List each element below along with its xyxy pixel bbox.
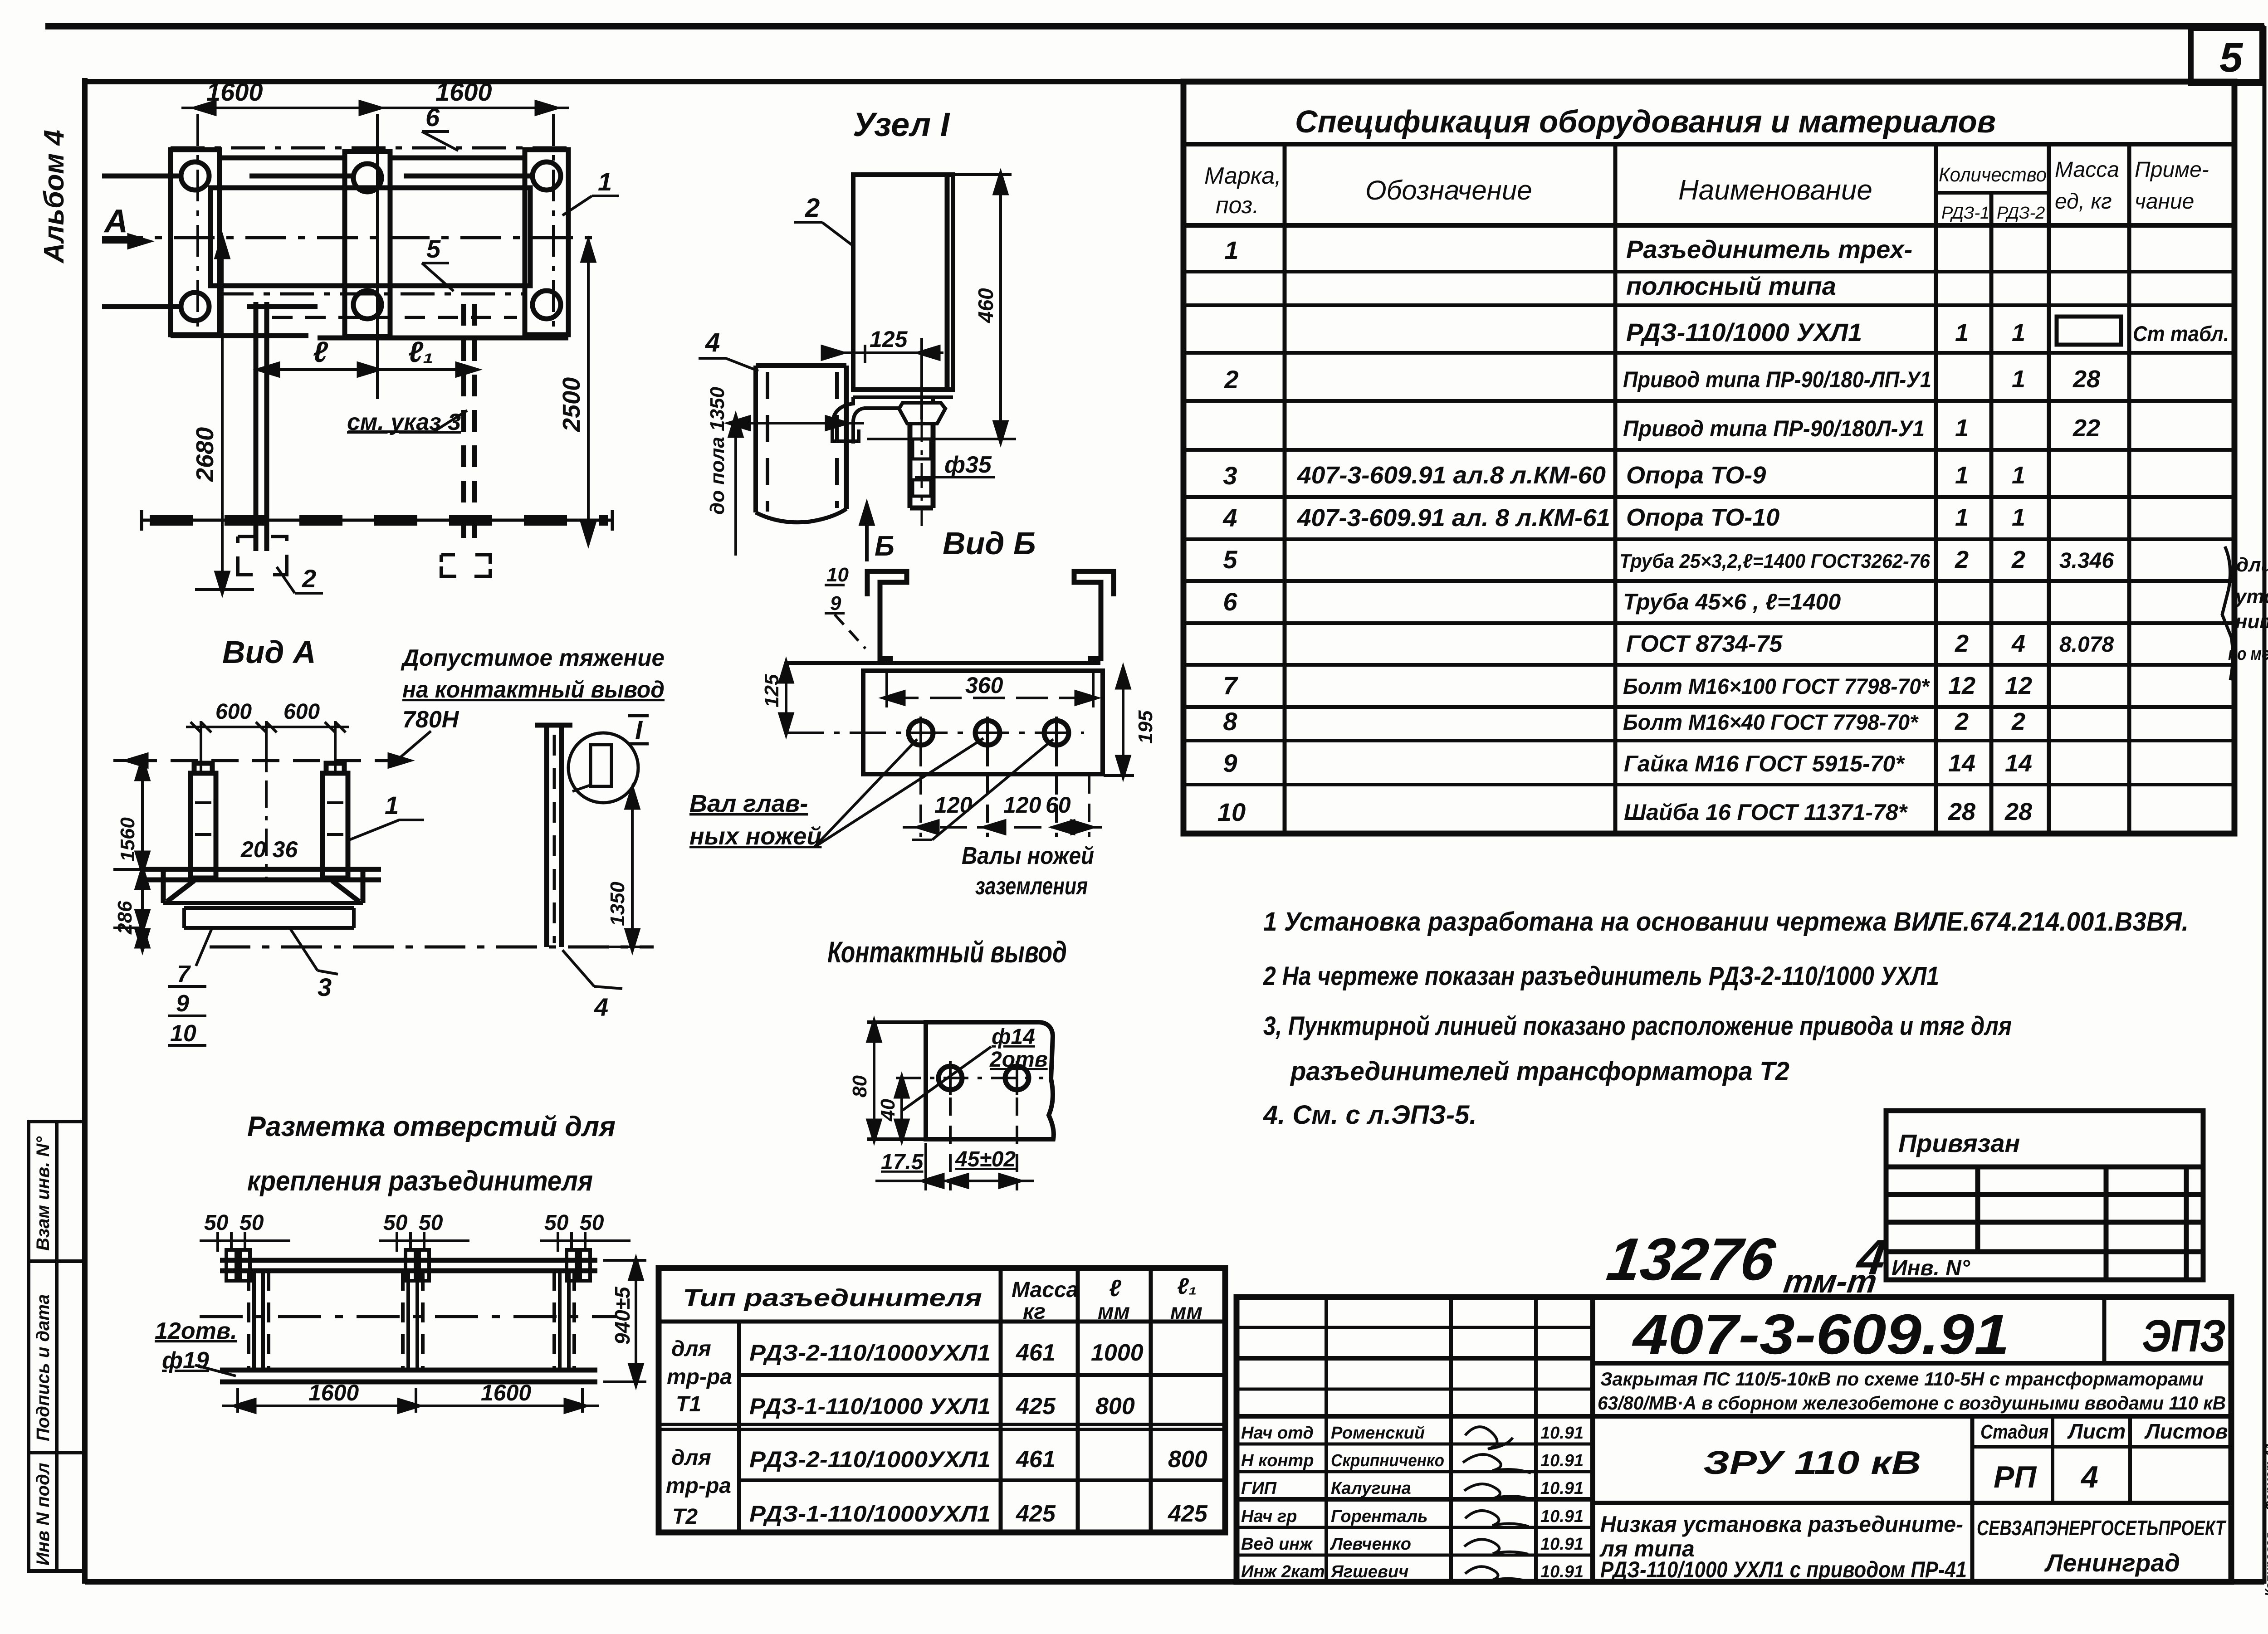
svg-text:Н контр: Н контр [1241, 1451, 1314, 1470]
svg-text:мм: мм [1098, 1300, 1130, 1324]
svg-text:Альбом 4: Альбом 4 [39, 130, 70, 264]
svg-text:Вид Б: Вид Б [943, 526, 1036, 561]
svg-text:780Н: 780Н [402, 707, 459, 733]
svg-text:ℓ: ℓ [313, 336, 328, 368]
svg-text:Горенталь: Горенталь [1331, 1507, 1428, 1526]
svg-text:20 36: 20 36 [240, 837, 298, 862]
svg-text:Труба 25×3,2,ℓ=1400 ГОСТ3262-7: Труба 25×3,2,ℓ=1400 ГОСТ3262-76 [1619, 550, 1930, 572]
svg-text:Наименование: Наименование [1678, 175, 1872, 206]
svg-text:940±5: 940±5 [611, 1286, 634, 1345]
svg-text:50: 50 [419, 1211, 443, 1235]
svg-text:28: 28 [1948, 798, 1975, 825]
svg-text:7: 7 [1223, 671, 1238, 700]
svg-text:120: 120 [934, 792, 973, 818]
svg-text:Опора ТО-10: Опора ТО-10 [1626, 504, 1779, 531]
svg-text:22: 22 [2072, 415, 2100, 442]
svg-text:7: 7 [177, 961, 191, 987]
svg-text:407-3-609.91 ал.8 л.КМ-60: 407-3-609.91 ал.8 л.КМ-60 [1297, 462, 1606, 489]
svg-text:1350: 1350 [606, 882, 629, 926]
svg-text:Шайба 16 ГОСТ 11371-78*: Шайба 16 ГОСТ 11371-78* [1624, 800, 1908, 825]
svg-text:А: А [103, 203, 128, 239]
svg-text:Масса: Масса [2055, 158, 2119, 182]
svg-text:Вед инж: Вед инж [1241, 1535, 1313, 1554]
svg-text:2: 2 [2011, 546, 2025, 573]
svg-text:заземления: заземления [975, 873, 1088, 900]
svg-text:ных ножей: ных ножей [689, 823, 821, 850]
svg-text:5: 5 [2219, 34, 2244, 81]
svg-text:ГИП: ГИП [1241, 1479, 1277, 1498]
svg-text:Приме-: Приме- [2135, 158, 2209, 182]
svg-text:для: для [671, 1446, 711, 1470]
svg-text:800: 800 [1168, 1446, 1207, 1473]
svg-text:8.078: 8.078 [2059, 633, 2114, 657]
svg-text:РДЗ-2-110/1000УХЛ1: РДЗ-2-110/1000УХЛ1 [749, 1447, 991, 1472]
svg-text:поз.: поз. [1216, 192, 1259, 219]
svg-text:800: 800 [1095, 1393, 1135, 1419]
svg-text:1 Установка разработана на осн: 1 Установка разработана на основании чер… [1263, 907, 2189, 937]
svg-text:2: 2 [302, 564, 316, 593]
svg-text:360: 360 [965, 673, 1003, 698]
svg-text:9: 9 [176, 990, 189, 1017]
svg-text:Привод типа ПР-90/180Л-У1: Привод типа ПР-90/180Л-У1 [1623, 416, 1925, 441]
svg-text:460: 460 [974, 288, 997, 323]
svg-text:разъединителей трансформатора: разъединителей трансформатора Т2 [1290, 1057, 1789, 1086]
svg-text:чание: чание [2135, 190, 2194, 214]
svg-text:1600: 1600 [481, 1380, 531, 1405]
svg-text:Калугина: Калугина [1331, 1479, 1411, 1498]
svg-text:нить: нить [2235, 610, 2268, 633]
svg-text:Масса: Масса [1012, 1278, 1078, 1302]
svg-text:461: 461 [1016, 1446, 1056, 1473]
svg-text:Формат А1: Формат А1 [2263, 1443, 2268, 1510]
svg-text:1600: 1600 [308, 1380, 359, 1405]
svg-text:Закрытая ПС 110/5-10кВ по схем: Закрытая ПС 110/5-10кВ по схеме 110-5Н с… [1600, 1368, 2204, 1390]
svg-text:3, Пунктирной линией показан: 3, Пунктирной линией показано расположен… [1263, 1011, 2012, 1041]
svg-text:425: 425 [1016, 1393, 1056, 1419]
svg-text:Разметка отверстий для: Разметка отверстий для [247, 1111, 616, 1142]
svg-text:60: 60 [1046, 792, 1071, 818]
svg-text:Б: Б [875, 531, 894, 562]
svg-text:Ст табл.: Ст табл. [2133, 322, 2229, 346]
svg-text:1: 1 [1224, 236, 1238, 264]
svg-text:2: 2 [1955, 546, 1969, 573]
svg-text:Нач отд: Нач отд [1241, 1424, 1314, 1443]
svg-text:80: 80 [849, 1075, 871, 1097]
svg-text:Гайка М16 ГОСТ 5915-70*: Гайка М16 ГОСТ 5915-70* [1624, 751, 1905, 776]
svg-text:Т1: Т1 [676, 1392, 701, 1416]
svg-text:до пола 1350: до пола 1350 [706, 386, 728, 515]
svg-text:Марка,: Марка, [1204, 163, 1281, 189]
svg-text:Валы ножей: Валы ножей [962, 842, 1094, 869]
svg-text:2: 2 [1955, 630, 1969, 657]
svg-text:РДЗ-1-110/1000УХЛ1: РДЗ-1-110/1000УХЛ1 [749, 1501, 991, 1527]
svg-text:3: 3 [1223, 461, 1237, 490]
svg-text:4: 4 [2011, 630, 2025, 657]
svg-text:9: 9 [830, 592, 841, 615]
svg-text:28: 28 [2004, 798, 2032, 825]
svg-text:1600: 1600 [435, 78, 492, 106]
svg-text:2 На чертеже показан разъедин: 2 На чертеже показан разъединитель РДЗ-2… [1263, 961, 1939, 991]
svg-text:для: для [671, 1337, 711, 1361]
svg-text:Тип разъединителя: Тип разъединителя [683, 1284, 982, 1312]
svg-text:на контактный вывод: на контактный вывод [402, 677, 665, 703]
svg-text:8: 8 [1223, 707, 1237, 736]
svg-text:Болт М16×100 ГОСТ 7798-70*: Болт М16×100 ГОСТ 7798-70* [1623, 675, 1930, 699]
svg-text:Копировал: Копировал [2263, 1532, 2268, 1596]
svg-text:полюсный типа: полюсный типа [1626, 272, 1836, 300]
svg-text:Нач гр: Нач гр [1241, 1507, 1297, 1526]
svg-text:мм: мм [1170, 1300, 1202, 1324]
svg-text:Опора ТО-9: Опора ТО-9 [1626, 462, 1766, 489]
svg-text:крепления разъединителя: крепления разъединителя [247, 1166, 593, 1197]
svg-text:4: 4 [1222, 503, 1237, 532]
svg-text:Т2: Т2 [672, 1505, 698, 1529]
svg-text:ЭПЗ: ЭПЗ [2142, 1311, 2226, 1361]
svg-text:9: 9 [1223, 749, 1237, 777]
svg-text:12отв.: 12отв. [155, 1318, 237, 1344]
svg-text:Обозначение: Обозначение [1365, 175, 1532, 205]
svg-text:Узел I: Узел I [853, 106, 950, 143]
svg-text:1600: 1600 [206, 78, 263, 106]
svg-text:Инв N подл: Инв N подл [33, 1463, 53, 1566]
svg-text:3: 3 [318, 973, 332, 1001]
svg-text:Допустимое тяжение: Допустимое тяжение [401, 645, 665, 671]
svg-text:1: 1 [1955, 462, 1969, 489]
svg-text:600: 600 [283, 700, 320, 724]
svg-text:17.5: 17.5 [881, 1150, 924, 1174]
svg-text:Подпись и дата: Подпись и дата [33, 1294, 53, 1441]
svg-text:Инв. N°: Инв. N° [1892, 1256, 1970, 1280]
svg-text:1: 1 [2012, 462, 2025, 489]
svg-text:Низкая установка разъедините-: Низкая установка разъедините- [1600, 1512, 1963, 1537]
svg-text:461: 461 [1016, 1340, 1056, 1366]
svg-text:Листов: Листов [2144, 1419, 2228, 1443]
svg-text:ф19: ф19 [162, 1347, 209, 1374]
svg-text:40: 40 [877, 1099, 899, 1122]
svg-text:10.91: 10.91 [1540, 1424, 1584, 1443]
svg-text:407-3-609.91: 407-3-609.91 [1632, 1303, 2009, 1366]
svg-text:ф35: ф35 [944, 452, 992, 478]
svg-text:10: 10 [170, 1020, 196, 1047]
svg-text:Ленинград: Ленинград [2044, 1549, 2180, 1577]
svg-text:12: 12 [1948, 672, 1975, 699]
svg-text:10: 10 [826, 564, 849, 586]
svg-text:Ягшевич: Ягшевич [1330, 1562, 1408, 1581]
svg-text:Скрипниченко: Скрипниченко [1331, 1451, 1444, 1470]
svg-text:ЗРУ 110 кВ: ЗРУ 110 кВ [1703, 1445, 1921, 1481]
svg-text:5: 5 [1223, 545, 1237, 574]
svg-text:5: 5 [426, 234, 441, 263]
svg-text:уточ-: уточ- [2234, 585, 2268, 608]
svg-text:Труба 45×6 , ℓ=1400: Труба 45×6 , ℓ=1400 [1623, 589, 1841, 615]
svg-text:1: 1 [1955, 504, 1969, 531]
svg-text:см. указ 3: см. указ 3 [347, 409, 461, 435]
svg-text:2680: 2680 [191, 427, 219, 482]
svg-text:ГОСТ 8734-75: ГОСТ 8734-75 [1626, 631, 1783, 657]
svg-text:600: 600 [215, 700, 252, 724]
svg-text:РДЗ-1: РДЗ-1 [1941, 204, 1989, 223]
svg-text:1: 1 [1955, 415, 1969, 442]
svg-text:125: 125 [870, 327, 908, 352]
svg-text:13276: 13276 [1603, 1226, 1779, 1293]
svg-text:РДЗ-2-110/1000УХЛ1: РДЗ-2-110/1000УХЛ1 [749, 1340, 991, 1366]
svg-text:Контактный вывод: Контактный вывод [827, 935, 1067, 969]
svg-text:1560: 1560 [117, 817, 139, 862]
svg-text:Количество: Количество [1939, 164, 2047, 186]
svg-text:2: 2 [1224, 365, 1238, 394]
svg-text:Вал глав-: Вал глав- [689, 790, 808, 817]
svg-text:Левченко: Левченко [1330, 1535, 1411, 1554]
svg-text:14: 14 [2005, 750, 2032, 777]
svg-text:Инж 2кат: Инж 2кат [1241, 1562, 1325, 1581]
svg-text:1: 1 [598, 167, 612, 196]
svg-text:ℓ₁: ℓ₁ [1177, 1273, 1197, 1299]
svg-text:Роменский: Роменский [1331, 1424, 1425, 1443]
svg-text:50: 50 [580, 1211, 604, 1235]
svg-text:14: 14 [1948, 750, 1975, 777]
svg-text:РП: РП [1994, 1460, 2037, 1494]
svg-text:длину: длину [2236, 554, 2268, 576]
svg-text:кг: кг [1023, 1300, 1046, 1324]
svg-text:РДЗ-1-110/1000 УХЛ1: РДЗ-1-110/1000 УХЛ1 [749, 1394, 991, 1419]
svg-text:2500: 2500 [558, 377, 585, 432]
svg-text:12: 12 [2005, 672, 2032, 699]
svg-text:Привод типа ПР-90/180-ЛП-У1: Привод типа ПР-90/180-ЛП-У1 [1623, 367, 1931, 392]
svg-text:2отв: 2отв [989, 1048, 1048, 1072]
svg-text:6: 6 [425, 103, 440, 132]
svg-text:10.91: 10.91 [1540, 1562, 1584, 1581]
svg-text:6: 6 [1223, 587, 1237, 616]
svg-text:425: 425 [1168, 1501, 1208, 1527]
svg-text:1: 1 [2012, 504, 2025, 531]
svg-text:1: 1 [1955, 319, 1969, 346]
svg-text:ф14: ф14 [992, 1025, 1035, 1049]
svg-text:407-3-609.91 ал. 8 л.КМ-61: 407-3-609.91 ал. 8 л.КМ-61 [1297, 504, 1610, 532]
svg-text:Спецификация оборудования и: Спецификация оборудования и материалов [1295, 104, 1996, 139]
svg-text:РДЗ-110/1000 УХЛ1 с приводом П: РДЗ-110/1000 УХЛ1 с приводом ПР-41 [1600, 1557, 1967, 1582]
svg-text:125: 125 [761, 674, 783, 707]
svg-text:50: 50 [383, 1211, 408, 1235]
svg-text:ℓ₁: ℓ₁ [408, 336, 434, 368]
svg-text:1: 1 [2012, 366, 2025, 393]
svg-text:1: 1 [385, 791, 399, 819]
svg-text:РДЗ-110/1000 УХЛ1: РДЗ-110/1000 УХЛ1 [1626, 318, 1862, 346]
svg-text:ℓ: ℓ [1109, 1275, 1122, 1302]
svg-text:4: 4 [594, 993, 608, 1021]
svg-text:10.91: 10.91 [1540, 1507, 1584, 1526]
svg-text:Лист: Лист [2067, 1419, 2126, 1443]
svg-text:Стадия: Стадия [1980, 1421, 2048, 1443]
svg-text:Взам инв. N°: Взам инв. N° [33, 1136, 53, 1251]
svg-text:10.91: 10.91 [1540, 1451, 1584, 1470]
svg-text:63/80/МВ·А в сборном железобет: 63/80/МВ·А в сборном железобетоне с возд… [1598, 1392, 2226, 1414]
svg-text:45±02: 45±02 [955, 1147, 1016, 1171]
svg-text:Вид А: Вид А [222, 634, 316, 670]
svg-text:10: 10 [1217, 798, 1246, 826]
svg-text:2: 2 [2011, 708, 2025, 735]
svg-text:I: I [635, 716, 643, 745]
svg-text:1: 1 [2012, 319, 2025, 346]
svg-text:4: 4 [2080, 1460, 2098, 1494]
svg-text:тр-ра: тр-ра [667, 1365, 732, 1389]
svg-text:тр-ра: тр-ра [666, 1474, 731, 1498]
svg-text:Разъединитель трех-: Разъединитель трех- [1626, 235, 1912, 263]
svg-text:2: 2 [1955, 708, 1969, 735]
svg-text:10.91: 10.91 [1540, 1479, 1584, 1498]
svg-text:Болт М16×40 ГОСТ 7798-70*: Болт М16×40 ГОСТ 7798-70* [1623, 711, 1919, 735]
svg-text:СЕВЗАПЭНЕРГОСЕТЬПРОЕКТ: СЕВЗАПЭНЕРГОСЕТЬПРОЕКТ [1977, 1516, 2227, 1540]
svg-text:4. См. с л.ЭПЗ-5.: 4. См. с л.ЭПЗ-5. [1263, 1100, 1476, 1130]
svg-text:4: 4 [705, 328, 720, 357]
svg-text:Привязан: Привязан [1898, 1129, 2020, 1157]
svg-text:425: 425 [1016, 1501, 1056, 1527]
svg-text:28: 28 [2072, 366, 2100, 393]
svg-text:2: 2 [805, 193, 820, 223]
svg-text:1000: 1000 [1091, 1340, 1144, 1366]
svg-text:195: 195 [1134, 710, 1157, 744]
svg-text:3.346: 3.346 [2059, 549, 2114, 573]
svg-text:РДЗ-2: РДЗ-2 [1997, 204, 2045, 223]
svg-text:120: 120 [1003, 792, 1041, 818]
svg-text:ед, кг: ед, кг [2055, 190, 2112, 214]
svg-text:50: 50 [240, 1211, 264, 1235]
svg-text:10.91: 10.91 [1540, 1535, 1584, 1554]
svg-text:50: 50 [204, 1211, 229, 1235]
svg-text:286: 286 [114, 901, 136, 935]
svg-text:50: 50 [544, 1211, 569, 1235]
